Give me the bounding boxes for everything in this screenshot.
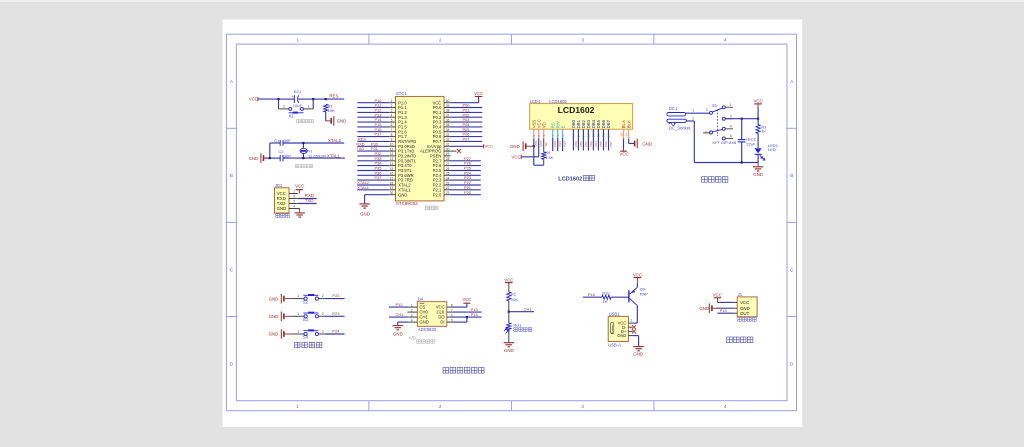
svg-text:USB1: USB1 xyxy=(609,312,621,317)
svg-text:22uF: 22uF xyxy=(746,142,756,147)
svg-text:P02: P02 xyxy=(584,141,588,147)
svg-text:23: 23 xyxy=(446,181,450,185)
svg-text:GND: GND xyxy=(269,296,279,301)
svg-text:16: 16 xyxy=(625,133,629,137)
svg-text:P37: P37 xyxy=(375,175,382,180)
svg-text:1: 1 xyxy=(630,319,632,323)
svg-text:S4: S4 xyxy=(303,335,309,340)
svg-text:9: 9 xyxy=(391,138,393,142)
svg-text:VCC: VCC xyxy=(740,300,749,305)
svg-text:18: 18 xyxy=(390,181,394,185)
svg-text:2: 2 xyxy=(293,195,295,199)
svg-text:S1: S1 xyxy=(712,103,718,108)
svg-text:11: 11 xyxy=(390,147,394,151)
svg-text:GND: GND xyxy=(249,156,259,161)
svg-text:RES: RES xyxy=(329,93,338,98)
svg-text:33: 33 xyxy=(446,133,450,137)
svg-text:RG1: RG1 xyxy=(513,323,522,328)
svg-text:STC1: STC1 xyxy=(396,91,407,96)
svg-text:2: 2 xyxy=(283,105,285,109)
svg-text:2: 2 xyxy=(322,330,324,334)
svg-text:1: 1 xyxy=(297,312,299,316)
svg-text:VCC: VCC xyxy=(295,183,304,188)
svg-text:CH1: CH1 xyxy=(524,306,533,311)
svg-text:1: 1 xyxy=(293,190,295,194)
svg-text:DB7: DB7 xyxy=(606,119,611,128)
svg-text:14: 14 xyxy=(607,134,611,138)
svg-text:21: 21 xyxy=(446,191,450,195)
svg-text:LED: LED xyxy=(768,147,776,152)
svg-text:14: 14 xyxy=(390,162,394,166)
svg-text:GND: GND xyxy=(510,144,520,149)
svg-text:39: 39 xyxy=(446,104,450,108)
svg-text:30P: 30P xyxy=(284,138,291,143)
svg-text:15: 15 xyxy=(390,167,394,171)
svg-text:P07: P07 xyxy=(463,137,470,142)
svg-text:CH1: CH1 xyxy=(396,312,405,317)
svg-text:34: 34 xyxy=(446,128,450,132)
svg-text:S3: S3 xyxy=(303,317,309,322)
svg-text:VCC: VCC xyxy=(633,272,642,277)
svg-text:B: B xyxy=(790,173,793,178)
svg-text:GND: GND xyxy=(360,211,370,216)
svg-text:29: 29 xyxy=(446,152,450,156)
svg-text:U4: U4 xyxy=(418,297,424,302)
svg-text:GND: GND xyxy=(269,314,279,319)
svg-text:PNP: PNP xyxy=(640,292,649,297)
svg-text:P07: P07 xyxy=(609,141,613,147)
svg-text:P20: P20 xyxy=(464,190,472,195)
svg-text:P03: P03 xyxy=(589,141,593,147)
svg-text:GND: GND xyxy=(504,348,514,353)
svg-text:P27: P27 xyxy=(563,141,567,147)
svg-text:E: E xyxy=(560,125,565,128)
svg-text:31: 31 xyxy=(446,143,450,147)
svg-text:P01: P01 xyxy=(579,141,583,147)
svg-text:DI: DI xyxy=(440,320,444,325)
svg-text:1.5K: 1.5K xyxy=(545,156,553,160)
svg-text:XTAL2: XTAL2 xyxy=(328,138,342,143)
svg-text:28: 28 xyxy=(446,157,450,161)
svg-text:4: 4 xyxy=(724,404,727,409)
svg-text:2: 2 xyxy=(706,108,708,112)
svg-text:1: 1 xyxy=(297,330,299,334)
svg-text:P16: P16 xyxy=(588,292,596,297)
svg-text:KFT DIP-8X8: KFT DIP-8X8 xyxy=(713,140,737,145)
svg-text:4: 4 xyxy=(724,37,727,42)
svg-text:EC1: EC1 xyxy=(294,89,303,94)
svg-text:LCD1602: LCD1602 xyxy=(549,99,567,104)
svg-text:GND: GND xyxy=(277,206,287,211)
svg-text:P05: P05 xyxy=(599,141,603,147)
svg-text:13: 13 xyxy=(602,134,606,138)
svg-text:10K: 10K xyxy=(511,297,518,302)
svg-text:A/D: A/D xyxy=(409,335,416,340)
svg-text:7: 7 xyxy=(391,128,393,132)
svg-text:OUT: OUT xyxy=(740,311,750,316)
svg-text:P24: P24 xyxy=(332,329,340,334)
svg-text:10: 10 xyxy=(390,143,394,147)
svg-text:VCC: VCC xyxy=(753,98,762,103)
svg-text:GND: GND xyxy=(617,333,626,338)
svg-text:1: 1 xyxy=(692,109,694,113)
svg-text:TXD: TXD xyxy=(305,198,314,203)
svg-text:4: 4 xyxy=(391,114,393,118)
svg-text:5: 5 xyxy=(730,134,732,138)
svg-text:VCC: VCC xyxy=(485,144,494,149)
svg-text:P12: P12 xyxy=(396,302,404,307)
svg-text:2: 2 xyxy=(439,404,442,409)
svg-text:3: 3 xyxy=(581,37,584,42)
svg-text:3: 3 xyxy=(391,109,393,113)
svg-text:1: 1 xyxy=(296,37,299,42)
svg-text:BLK: BLK xyxy=(626,120,631,128)
svg-text:1: 1 xyxy=(308,105,310,109)
svg-text:37: 37 xyxy=(446,114,450,118)
svg-text:K1: K1 xyxy=(289,113,295,118)
svg-text:P17: P17 xyxy=(375,132,382,137)
svg-text:1: 1 xyxy=(296,404,299,409)
svg-text:2: 2 xyxy=(692,116,694,120)
svg-text:VCC: VCC xyxy=(504,278,513,283)
svg-text:24: 24 xyxy=(446,176,450,180)
svg-text:P04: P04 xyxy=(594,141,598,147)
svg-text:1K: 1K xyxy=(603,299,608,304)
svg-text:S2: S2 xyxy=(303,299,309,304)
svg-text:2: 2 xyxy=(439,37,442,42)
svg-text:TXD: TXD xyxy=(356,146,364,151)
svg-text:VCC: VCC xyxy=(249,97,258,102)
svg-text:JD1: JD1 xyxy=(275,183,283,188)
svg-text:19: 19 xyxy=(390,186,394,190)
svg-text:VCC: VCC xyxy=(619,152,628,157)
svg-text:P06: P06 xyxy=(604,141,608,147)
svg-text:12: 12 xyxy=(390,152,394,156)
svg-text:LCD1602: LCD1602 xyxy=(558,176,582,182)
svg-text:16: 16 xyxy=(390,172,394,176)
svg-text:USB-A: USB-A xyxy=(608,343,621,348)
svg-text:GND: GND xyxy=(269,332,279,337)
svg-text:VCC: VCC xyxy=(462,297,471,302)
svg-text:P26: P26 xyxy=(558,141,562,147)
svg-text:4: 4 xyxy=(293,205,295,209)
svg-text:P23: P23 xyxy=(332,311,340,316)
svg-text:11: 11 xyxy=(592,134,596,137)
svg-text:1: 1 xyxy=(730,103,732,107)
svg-text:GND: GND xyxy=(393,332,403,337)
svg-text:GND: GND xyxy=(633,351,643,356)
svg-text:VCC: VCC xyxy=(539,139,543,146)
svg-text:J1: J1 xyxy=(738,292,743,297)
svg-text:3: 3 xyxy=(730,114,732,118)
svg-text:13: 13 xyxy=(390,157,394,161)
svg-text:5: 5 xyxy=(391,118,393,122)
svg-text:20: 20 xyxy=(390,191,394,195)
svg-text:ADC0832: ADC0832 xyxy=(418,327,437,332)
svg-text:GND: GND xyxy=(337,119,347,124)
svg-text:35: 35 xyxy=(446,123,450,127)
svg-text:P00: P00 xyxy=(574,141,578,147)
svg-text:VD: VD xyxy=(541,122,546,128)
svg-text:STC89C52: STC89C52 xyxy=(396,201,418,206)
svg-text:GND: GND xyxy=(420,320,429,325)
svg-text:B: B xyxy=(230,173,233,178)
svg-text:DC_Socket: DC_Socket xyxy=(669,126,691,131)
svg-text:10: 10 xyxy=(587,134,591,138)
svg-text:32: 32 xyxy=(446,138,450,142)
svg-text:P2.0: P2.0 xyxy=(433,192,442,197)
svg-text:22: 22 xyxy=(446,186,450,190)
svg-text:2: 2 xyxy=(322,294,324,298)
svg-text:38: 38 xyxy=(446,109,450,113)
svg-text:LCD1602: LCD1602 xyxy=(558,105,595,115)
svg-text:GND: GND xyxy=(699,306,709,311)
svg-text:XTAL1: XTAL1 xyxy=(357,185,369,190)
svg-text:+: + xyxy=(291,95,293,99)
svg-text:27: 27 xyxy=(446,162,450,166)
svg-text:DC1: DC1 xyxy=(669,106,678,111)
svg-text:26: 26 xyxy=(446,167,450,171)
svg-text:3: 3 xyxy=(581,404,584,409)
svg-text:17: 17 xyxy=(390,176,394,180)
svg-text:8: 8 xyxy=(391,133,393,137)
svg-text:P14: P14 xyxy=(471,312,479,317)
svg-text:P15: P15 xyxy=(720,308,728,313)
svg-text:VCC: VCC xyxy=(511,155,520,160)
svg-text:3: 3 xyxy=(705,130,707,134)
svg-text:2: 2 xyxy=(391,104,393,108)
svg-text:GND: GND xyxy=(753,172,763,177)
svg-text:2: 2 xyxy=(322,312,324,316)
svg-text:6: 6 xyxy=(391,123,393,127)
svg-text:15: 15 xyxy=(619,133,623,137)
svg-text:1K: 1K xyxy=(761,128,766,133)
svg-text:4: 4 xyxy=(730,125,732,129)
svg-text:VCC: VCC xyxy=(474,91,483,96)
svg-text:R4: R4 xyxy=(545,151,550,155)
svg-text:36: 36 xyxy=(446,118,450,122)
svg-text:C1: C1 xyxy=(274,138,280,143)
svg-text:25: 25 xyxy=(446,172,450,176)
svg-text:GND: GND xyxy=(398,192,407,197)
svg-text:3: 3 xyxy=(293,200,295,204)
svg-text:40: 40 xyxy=(446,99,450,103)
svg-text:R2: R2 xyxy=(511,291,517,296)
svg-text:P25: P25 xyxy=(553,141,557,147)
svg-text:LCD1: LCD1 xyxy=(530,99,541,104)
svg-text:1: 1 xyxy=(297,294,299,298)
svg-text:30: 30 xyxy=(446,147,450,151)
svg-text:P22: P22 xyxy=(332,293,340,298)
svg-text:1: 1 xyxy=(391,99,393,103)
svg-text:GND: GND xyxy=(642,141,652,146)
svg-text:11.0592M: 11.0592M xyxy=(308,154,326,159)
svg-text:R10: R10 xyxy=(602,291,610,296)
svg-text:12: 12 xyxy=(597,134,601,138)
svg-text:10K: 10K xyxy=(328,108,335,113)
svg-text:VCC: VCC xyxy=(713,292,722,297)
svg-text:XTAL1: XTAL1 xyxy=(327,154,341,159)
